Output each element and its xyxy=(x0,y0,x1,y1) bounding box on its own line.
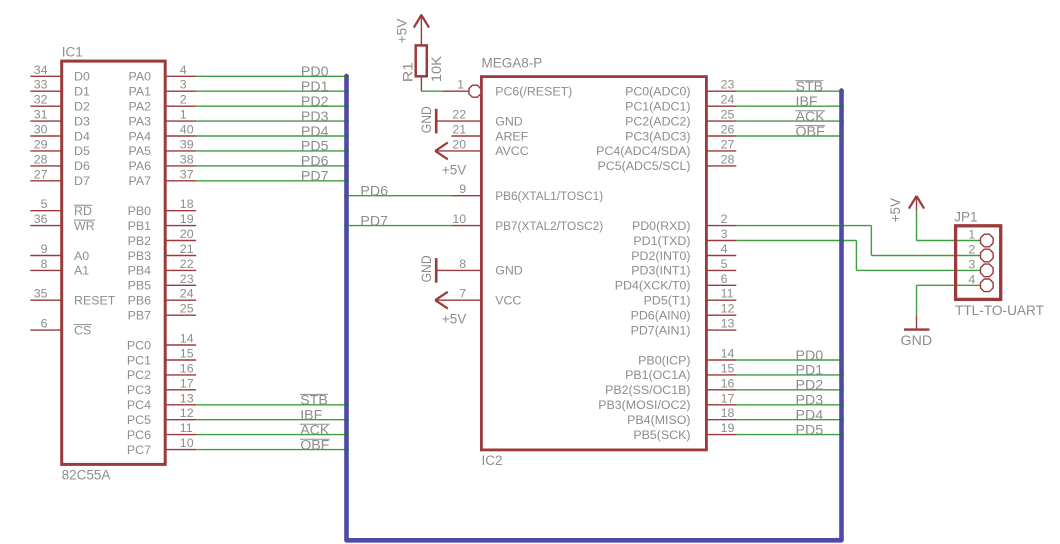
svg-text:WR: WR xyxy=(74,219,95,233)
svg-text:RESET: RESET xyxy=(74,294,116,308)
svg-text:PC3(ADC3): PC3(ADC3) xyxy=(625,129,690,143)
svg-text:STB: STB xyxy=(300,393,328,409)
svg-text:10: 10 xyxy=(180,436,194,450)
svg-text:34: 34 xyxy=(34,63,48,77)
svg-text:GND: GND xyxy=(419,106,434,133)
svg-text:22: 22 xyxy=(452,108,466,122)
svg-text:6: 6 xyxy=(721,272,728,286)
svg-text:PA4: PA4 xyxy=(129,129,152,143)
svg-text:D1: D1 xyxy=(74,85,90,99)
svg-text:13: 13 xyxy=(180,391,194,405)
svg-text:28: 28 xyxy=(721,152,735,166)
svg-text:GND: GND xyxy=(901,333,933,349)
svg-text:GND: GND xyxy=(419,255,434,282)
svg-text:+5V: +5V xyxy=(888,198,903,222)
svg-text:31: 31 xyxy=(34,108,48,122)
svg-text:13: 13 xyxy=(721,317,735,331)
svg-text:AVCC: AVCC xyxy=(495,144,529,158)
svg-text:ACK: ACK xyxy=(796,109,826,125)
svg-text:PC6: PC6 xyxy=(127,428,151,442)
svg-text:18: 18 xyxy=(180,197,194,211)
svg-text:PD7: PD7 xyxy=(301,169,329,185)
svg-text:PD2: PD2 xyxy=(796,378,824,394)
svg-text:R1: R1 xyxy=(400,62,415,82)
svg-text:PC4(ADC4/SDA): PC4(ADC4/SDA) xyxy=(596,144,690,158)
svg-text:1: 1 xyxy=(457,78,464,92)
svg-text:PD2: PD2 xyxy=(301,94,329,110)
svg-text:10K: 10K xyxy=(429,56,444,82)
svg-text:11: 11 xyxy=(721,287,734,301)
svg-text:D3: D3 xyxy=(74,114,90,128)
svg-text:16: 16 xyxy=(180,361,194,375)
svg-text:PC0(ADC0): PC0(ADC0) xyxy=(625,85,690,99)
svg-text:82C55A: 82C55A xyxy=(62,468,111,483)
svg-text:PC2(ADC2): PC2(ADC2) xyxy=(625,114,690,128)
svg-text:PB4: PB4 xyxy=(128,264,152,278)
svg-text:24: 24 xyxy=(180,287,194,301)
svg-text:PB5: PB5 xyxy=(128,279,152,293)
svg-text:A1: A1 xyxy=(74,264,89,278)
svg-text:17: 17 xyxy=(180,376,194,390)
svg-text:A0: A0 xyxy=(74,249,89,263)
svg-text:RD: RD xyxy=(74,204,92,218)
svg-text:PB6: PB6 xyxy=(128,294,152,308)
svg-text:VCC: VCC xyxy=(495,294,521,308)
svg-text:40: 40 xyxy=(180,123,194,137)
svg-text:IBF: IBF xyxy=(300,408,322,424)
svg-text:2: 2 xyxy=(180,93,187,107)
svg-text:PD6(AIN0): PD6(AIN0) xyxy=(631,309,691,323)
svg-text:PA5: PA5 xyxy=(129,144,152,158)
svg-text:PC0: PC0 xyxy=(127,338,151,352)
svg-text:8: 8 xyxy=(41,257,48,271)
svg-text:PB3: PB3 xyxy=(128,249,152,263)
svg-text:27: 27 xyxy=(721,137,735,151)
svg-text:PA2: PA2 xyxy=(129,100,152,114)
svg-text:PD0(RXD): PD0(RXD) xyxy=(632,219,691,233)
svg-text:GND: GND xyxy=(495,264,523,278)
svg-text:35: 35 xyxy=(34,287,48,301)
svg-text:PD5: PD5 xyxy=(301,139,329,155)
svg-text:19: 19 xyxy=(721,421,735,435)
svg-text:ACK: ACK xyxy=(300,422,330,438)
svg-text:D4: D4 xyxy=(74,129,90,143)
svg-text:23: 23 xyxy=(180,272,194,286)
svg-text:15: 15 xyxy=(180,347,194,361)
svg-text:JP1: JP1 xyxy=(954,210,977,225)
svg-text:D5: D5 xyxy=(74,144,90,158)
svg-text:PD0: PD0 xyxy=(301,64,329,80)
svg-text:2: 2 xyxy=(968,243,975,257)
svg-text:4: 4 xyxy=(721,242,728,256)
svg-text:25: 25 xyxy=(721,108,735,122)
svg-text:20: 20 xyxy=(180,227,194,241)
svg-text:39: 39 xyxy=(180,137,194,151)
svg-text:PD4: PD4 xyxy=(796,408,824,424)
svg-text:8: 8 xyxy=(459,257,466,271)
svg-text:PD3: PD3 xyxy=(796,393,824,409)
svg-text:PB5(SCK): PB5(SCK) xyxy=(633,428,690,442)
svg-text:15: 15 xyxy=(721,361,735,375)
svg-text:PD0: PD0 xyxy=(796,348,824,364)
svg-text:PD6: PD6 xyxy=(360,184,388,200)
svg-text:D2: D2 xyxy=(74,100,90,114)
svg-text:PB6(XTAL1/TOSC1): PB6(XTAL1/TOSC1) xyxy=(495,189,603,203)
svg-text:11: 11 xyxy=(180,421,193,435)
svg-text:IC1: IC1 xyxy=(62,44,83,59)
svg-text:PD7(AIN1): PD7(AIN1) xyxy=(631,323,691,337)
svg-text:PB2: PB2 xyxy=(128,234,152,248)
svg-text:IC2: IC2 xyxy=(482,453,503,468)
svg-text:PB0(ICP): PB0(ICP) xyxy=(638,353,690,367)
svg-text:5: 5 xyxy=(41,197,48,211)
svg-text:STB: STB xyxy=(796,79,824,95)
svg-text:6: 6 xyxy=(41,317,48,331)
svg-text:PD1: PD1 xyxy=(301,79,329,95)
svg-text:OBF: OBF xyxy=(796,124,825,140)
svg-text:PC4: PC4 xyxy=(127,398,151,412)
svg-text:27: 27 xyxy=(34,167,48,181)
svg-text:+5V: +5V xyxy=(395,19,410,43)
svg-text:PB4(MISO): PB4(MISO) xyxy=(627,413,690,427)
svg-text:TTL-TO-UART: TTL-TO-UART xyxy=(955,303,1044,318)
svg-text:18: 18 xyxy=(721,406,735,420)
svg-text:28: 28 xyxy=(34,152,48,166)
svg-text:17: 17 xyxy=(721,391,735,405)
svg-text:14: 14 xyxy=(180,332,194,346)
svg-text:20: 20 xyxy=(452,137,466,151)
svg-text:19: 19 xyxy=(180,212,194,226)
svg-text:PB2(SS/OC1B): PB2(SS/OC1B) xyxy=(605,383,690,397)
svg-text:PD1: PD1 xyxy=(796,363,824,379)
svg-text:16: 16 xyxy=(721,376,735,390)
svg-text:PC5(ADC5/SCL): PC5(ADC5/SCL) xyxy=(598,159,691,173)
svg-text:AREF: AREF xyxy=(495,129,528,143)
svg-text:9: 9 xyxy=(459,182,466,196)
svg-text:PB7: PB7 xyxy=(128,309,152,323)
svg-text:30: 30 xyxy=(34,123,48,137)
svg-text:D0: D0 xyxy=(74,70,90,84)
svg-text:5: 5 xyxy=(721,257,728,271)
svg-text:4: 4 xyxy=(180,63,187,77)
svg-text:7: 7 xyxy=(459,287,466,301)
svg-text:PC3: PC3 xyxy=(127,383,151,397)
svg-text:PD1(TXD): PD1(TXD) xyxy=(633,234,690,248)
svg-text:PD2(INT0): PD2(INT0) xyxy=(631,249,690,263)
svg-text:CS: CS xyxy=(74,323,91,337)
svg-text:10: 10 xyxy=(452,212,466,226)
svg-text:12: 12 xyxy=(721,302,735,316)
svg-text:38: 38 xyxy=(180,152,194,166)
svg-text:PA1: PA1 xyxy=(129,85,152,99)
svg-text:PC2: PC2 xyxy=(127,368,151,382)
svg-text:2: 2 xyxy=(721,212,728,226)
svg-text:23: 23 xyxy=(721,78,735,92)
svg-text:24: 24 xyxy=(721,93,735,107)
svg-text:37: 37 xyxy=(180,167,194,181)
svg-text:PB7(XTAL2/TOSC2): PB7(XTAL2/TOSC2) xyxy=(495,219,603,233)
svg-text:PC6(/RESET): PC6(/RESET) xyxy=(495,85,572,99)
svg-text:PA3: PA3 xyxy=(129,114,152,128)
svg-text:PA6: PA6 xyxy=(129,159,152,173)
svg-text:PD7: PD7 xyxy=(360,213,388,229)
svg-text:IBF: IBF xyxy=(796,94,818,110)
svg-text:PB0: PB0 xyxy=(128,204,152,218)
svg-text:1: 1 xyxy=(180,108,187,122)
svg-text:32: 32 xyxy=(34,93,48,107)
svg-text:+5V: +5V xyxy=(442,312,466,327)
svg-text:GND: GND xyxy=(495,114,523,128)
svg-text:OBF: OBF xyxy=(300,437,329,453)
svg-text:29: 29 xyxy=(34,137,48,151)
svg-text:9: 9 xyxy=(41,242,48,256)
svg-text:D6: D6 xyxy=(74,159,90,173)
svg-text:PD3(INT1): PD3(INT1) xyxy=(631,264,690,278)
svg-text:D7: D7 xyxy=(74,174,90,188)
svg-text:21: 21 xyxy=(180,242,194,256)
svg-text:PA0: PA0 xyxy=(129,70,152,84)
svg-text:PD5: PD5 xyxy=(796,422,824,438)
svg-text:PD3: PD3 xyxy=(301,109,329,125)
svg-text:3: 3 xyxy=(968,258,975,272)
svg-text:25: 25 xyxy=(180,302,194,316)
svg-text:PC7: PC7 xyxy=(127,443,151,457)
svg-text:4: 4 xyxy=(968,273,975,287)
svg-text:PD4: PD4 xyxy=(301,124,329,140)
svg-text:26: 26 xyxy=(721,123,735,137)
svg-text:PB3(MOSI/OC2): PB3(MOSI/OC2) xyxy=(598,398,690,412)
svg-text:36: 36 xyxy=(34,212,48,226)
svg-text:PB1: PB1 xyxy=(128,219,152,233)
svg-text:PC1(ADC1): PC1(ADC1) xyxy=(625,100,690,114)
svg-text:+5V: +5V xyxy=(442,163,466,178)
svg-text:12: 12 xyxy=(180,406,194,420)
svg-text:21: 21 xyxy=(452,123,466,137)
svg-text:PD4(XCK/T0): PD4(XCK/T0) xyxy=(615,279,691,293)
svg-text:PA7: PA7 xyxy=(129,174,152,188)
svg-text:14: 14 xyxy=(721,347,735,361)
svg-text:MEGA8-P: MEGA8-P xyxy=(482,56,543,71)
svg-text:PC5: PC5 xyxy=(127,413,151,427)
svg-text:PD6: PD6 xyxy=(301,154,329,170)
svg-text:PC1: PC1 xyxy=(127,353,151,367)
svg-text:33: 33 xyxy=(34,78,48,92)
svg-text:22: 22 xyxy=(180,257,194,271)
svg-text:PB1(OC1A): PB1(OC1A) xyxy=(625,368,690,382)
svg-text:3: 3 xyxy=(721,227,728,241)
svg-text:1: 1 xyxy=(968,228,975,242)
svg-text:3: 3 xyxy=(180,78,187,92)
svg-text:PD5(T1): PD5(T1) xyxy=(644,294,691,308)
